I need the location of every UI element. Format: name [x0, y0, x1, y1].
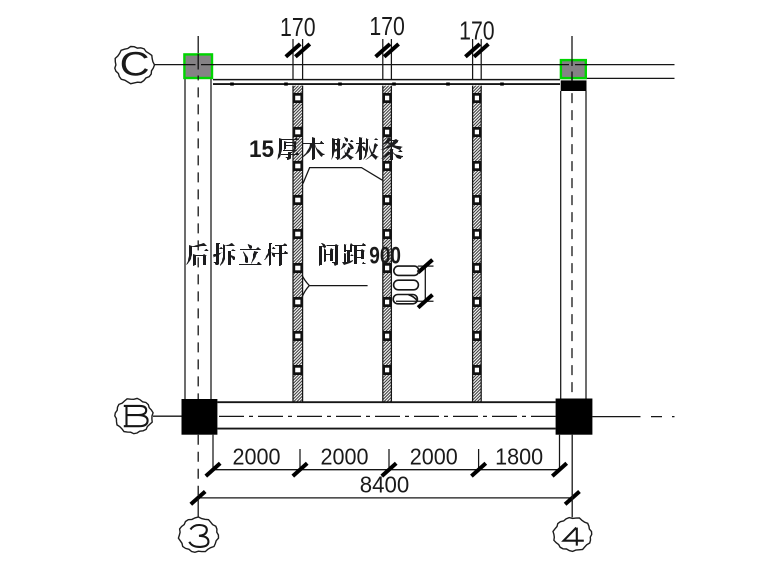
grid 4 stem below column — [571, 435, 573, 518]
grid 4 stub inside column marker — [571, 59, 573, 80]
plywood batten strip 3 (hatched) — [473, 86, 482, 402]
beam centreline (dash-dot, grid B) — [219, 415, 556, 417]
plywood batten strip 1 (hatched) — [293, 86, 303, 402]
letter B — [124, 406, 148, 426]
column C/4 black cap below marker — [561, 80, 587, 91]
grid line C (horizontal axis line) — [154, 64, 675, 66]
extension line from column B/3 — [212, 435, 214, 470]
grid 3 stem below column (dashed then solid to bubble) — [197, 435, 199, 498]
dimension tick (batten 3 left) — [465, 44, 479, 57]
numeral 3 — [189, 525, 208, 547]
plywood batten strip 2 (hatched) — [383, 86, 392, 402]
plywood band top edge under grid C — [213, 79, 560, 81]
dimension tick (900 top) — [418, 260, 432, 273]
dimension tick (batten 2 right) — [384, 44, 398, 57]
svg-text:1800: 1800 — [495, 443, 543, 469]
svg-text:170: 170 — [280, 12, 316, 42]
dimension tick 8400 left — [191, 492, 205, 505]
svg-text:2000: 2000 — [410, 443, 458, 469]
wall lines of column strip at grid 3 — [184, 79, 186, 399]
dimension row 1 line — [213, 469, 560, 471]
extension line from column B/4 — [559, 435, 561, 470]
170 dimension extension lines over batten 1 — [292, 39, 294, 80]
170 dimension extension lines over batten 3 — [472, 39, 474, 80]
leader from circle B to column — [153, 415, 182, 417]
vertical 900 dimension line — [424, 266, 426, 301]
grid bubble 3 — [178, 517, 218, 552]
label text: 15厚木胶板条 — [249, 136, 403, 163]
leader line for plywood strip label — [303, 168, 382, 184]
170 dimension extension lines over batten 2 — [382, 39, 384, 80]
plywood band lower edge with joint marks — [213, 83, 560, 85]
label text: 间距900 — [319, 243, 366, 266]
dimension tick row1 x=213 — [206, 463, 220, 476]
numeral 4 — [564, 528, 584, 546]
grid bubble B — [115, 398, 153, 433]
dimension tick row1 x=389 — [382, 463, 396, 476]
svg-text:170: 170 — [369, 11, 405, 41]
dimension tick (batten 1 right) — [295, 44, 309, 57]
grid bubble C — [115, 47, 155, 84]
column C/3: concrete column marker (grey fill, green border) — [184, 54, 212, 78]
dimension tick 8400 right — [565, 492, 579, 505]
dimension tick row1 x=559.5 — [552, 463, 566, 476]
beam at grid B: bottom edge — [217, 428, 555, 430]
grid bubble 4 — [553, 518, 592, 552]
wall lines of column strip at grid 4 — [560, 91, 562, 399]
column C/4: concrete column marker (grey fill, green border) — [561, 60, 586, 78]
dimension tick (900 bottom) — [418, 295, 432, 308]
label text: 后拆立杆 — [186, 243, 288, 266]
dimension tick row1 x=478.6 — [471, 463, 485, 476]
dimension tick row1 x=300 — [293, 463, 307, 476]
slab edge line right of column C/4 — [587, 77, 675, 79]
dimension tick (batten 1 left) — [286, 44, 300, 57]
intermediate extension lines — [299, 449, 301, 470]
column B/3 (black) — [182, 399, 218, 435]
beam at grid B: top edge — [217, 401, 555, 403]
grid C line across column C/3 (broken at centre) — [183, 64, 214, 66]
grid C line across column C/4 — [559, 64, 588, 66]
grid B dash-dot extension right of column B/4 — [592, 416, 674, 418]
grid line 4 vertical (solid above, dashed through column) — [571, 36, 573, 59]
svg-text:2000: 2000 — [233, 443, 281, 469]
dimension tick (batten 2 left) — [376, 44, 390, 57]
svg-text:8400: 8400 — [360, 472, 410, 498]
extension lines of vertical 900 dimension — [418, 265, 434, 267]
rotated dimension text 900 (digit 0) — [394, 266, 419, 275]
svg-text:170: 170 — [459, 16, 495, 46]
svg-text:2000: 2000 — [321, 443, 369, 469]
dimension tick (batten 3 right) — [474, 44, 488, 57]
grid 3 stub inside column marker — [197, 54, 199, 79]
svg-text:15: 15 — [249, 136, 274, 163]
svg-text:900: 900 — [369, 242, 401, 269]
curved leader arrow from 间距900 to batten 1 — [302, 275, 368, 298]
rotated dimension text 900 (digit 0) — [394, 280, 419, 290]
grid line 3 vertical (solid above, dashed through column) — [197, 36, 199, 53]
column B/4 (black) — [556, 399, 593, 435]
svg-text:C: C — [120, 46, 150, 84]
rotated dimension text 900 (digit 9) — [393, 295, 417, 304]
dimension row 2 line (8400) — [198, 497, 572, 499]
